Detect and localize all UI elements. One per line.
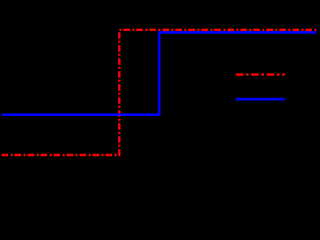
blue solid step curve: [2, 32, 316, 114]
red dash-dot step curve: [2, 30, 317, 155]
legend red dash-dot sample: [236, 73, 285, 75]
legend blue solid sample: [236, 98, 285, 101]
